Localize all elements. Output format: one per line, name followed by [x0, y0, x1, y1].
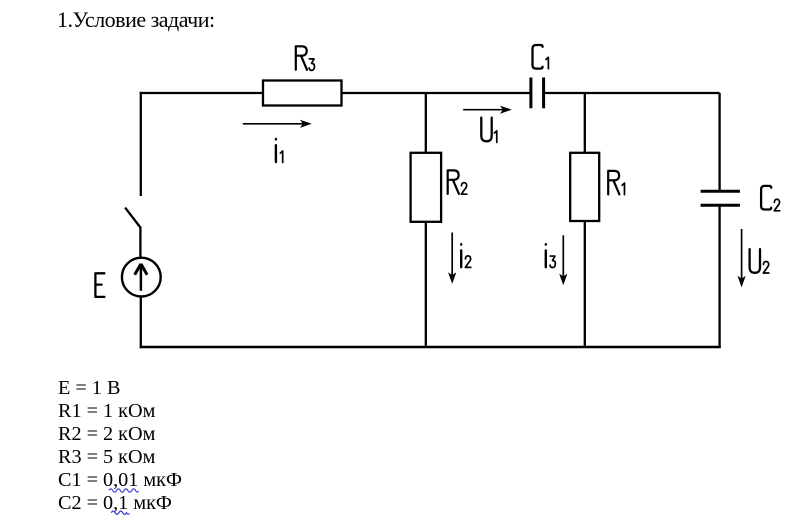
wire R2 branch lower [425, 222, 427, 347]
capacitor C1 plates [531, 78, 544, 109]
label C2 [761, 186, 780, 211]
label C1 [533, 45, 549, 69]
wire top-right segment [545, 92, 720, 94]
source E circle [122, 258, 161, 297]
wire R1 branch lower [584, 221, 586, 347]
value list text [58, 377, 182, 515]
switch S1 blade [125, 208, 140, 228]
label U2 [750, 249, 769, 273]
current arrow i3 [559, 235, 567, 285]
capacitor C2 plates [701, 191, 740, 205]
label i1 [276, 139, 283, 163]
wire R1 branch upper [584, 93, 586, 153]
current arrow i2 [448, 233, 456, 284]
resistor R1 [570, 153, 599, 221]
voltage arrow U1 [463, 106, 512, 114]
wire source to bottom [140, 297, 142, 349]
label R2 [448, 170, 467, 194]
label U1 [481, 118, 496, 143]
wire top-left segment [140, 92, 263, 94]
wire R2 branch upper [425, 93, 427, 153]
resistor R2 [411, 153, 442, 222]
spellcheck squiggle under 0,1 [111, 511, 129, 514]
title text [57, 7, 215, 33]
wire left branch upper [140, 92, 142, 196]
current arrow i1 [243, 120, 312, 128]
label i2 [461, 244, 471, 267]
wire C2 branch upper [718, 93, 720, 191]
wire C2 branch lower [718, 205, 720, 347]
source E arrow [135, 264, 147, 291]
resistor R3 [263, 81, 342, 106]
wire switch to source [139, 227, 141, 259]
label R3 [296, 46, 315, 70]
label R1 [608, 171, 624, 195]
wire top-middle segment [342, 92, 531, 94]
label E [95, 273, 104, 297]
label i3 [546, 244, 556, 267]
voltage arrow U2 [738, 229, 746, 287]
wire bottom segment [140, 346, 721, 348]
